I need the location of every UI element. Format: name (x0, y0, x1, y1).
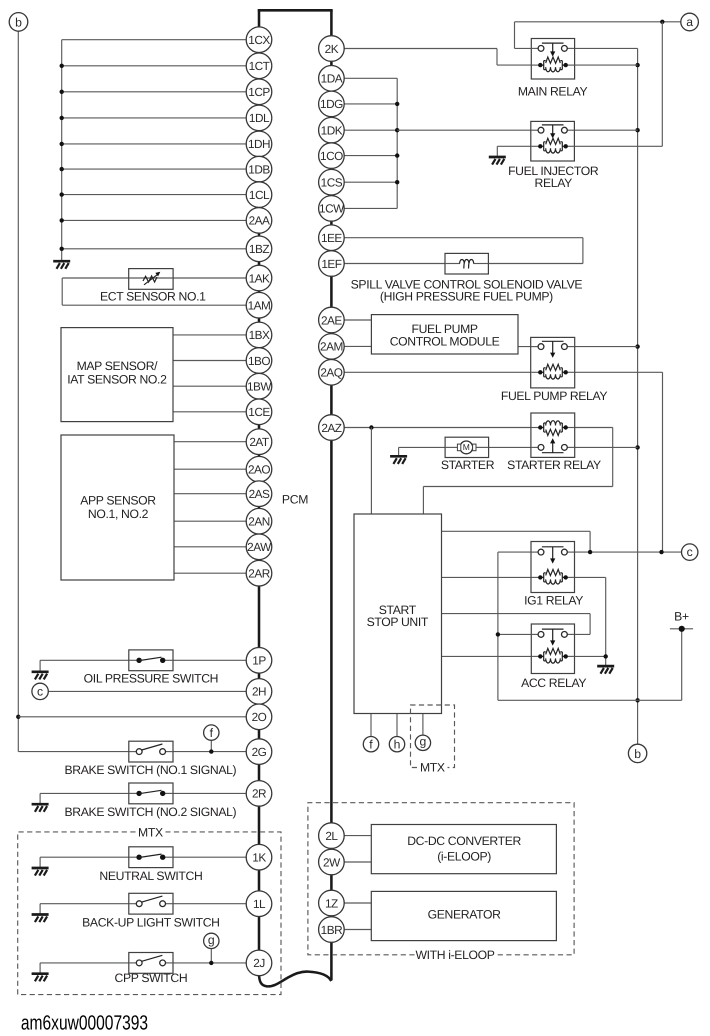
svg-text:2AN: 2AN (248, 515, 269, 529)
svg-text:(HIGH PRESSURE FUEL PUMP): (HIGH PRESSURE FUEL PUMP) (380, 290, 553, 304)
svg-text:1L: 1L (253, 897, 266, 911)
svg-text:2AA: 2AA (249, 214, 270, 228)
svg-text:1BW: 1BW (247, 380, 272, 394)
svg-text:1CE: 1CE (248, 405, 270, 419)
svg-text:2AM: 2AM (320, 340, 343, 354)
svg-text:1CT: 1CT (249, 59, 270, 73)
svg-text:1BR: 1BR (321, 923, 342, 937)
svg-text:CPP SWITCH: CPP SWITCH (115, 971, 188, 985)
svg-text:1P: 1P (252, 654, 266, 668)
svg-text:1CP: 1CP (248, 85, 270, 99)
svg-text:M: M (463, 442, 470, 452)
svg-text:STARTER RELAY: STARTER RELAY (507, 458, 601, 472)
svg-text:STARTER: STARTER (441, 458, 495, 472)
svg-text:h: h (394, 738, 401, 752)
svg-text:DC-DC CONVERTER: DC-DC CONVERTER (407, 834, 521, 848)
svg-text:1AK: 1AK (249, 271, 270, 285)
svg-text:B+: B+ (674, 609, 689, 623)
svg-text:1BZ: 1BZ (249, 242, 269, 256)
svg-text:1BX: 1BX (249, 328, 270, 342)
svg-text:MTX: MTX (138, 825, 163, 839)
svg-text:c: c (687, 545, 693, 559)
svg-text:STOP UNIT: STOP UNIT (367, 615, 429, 629)
svg-text:1DH: 1DH (248, 137, 270, 151)
svg-text:BRAKE SWITCH (NO.1 SIGNAL): BRAKE SWITCH (NO.1 SIGNAL) (65, 763, 237, 777)
svg-text:b: b (15, 16, 22, 30)
svg-text:2H: 2H (252, 685, 266, 699)
svg-text:1EF: 1EF (321, 257, 341, 271)
svg-text:2AE: 2AE (321, 313, 342, 327)
svg-text:1CL: 1CL (249, 188, 270, 202)
svg-text:GENERATOR: GENERATOR (428, 908, 501, 922)
svg-text:APP SENSOR: APP SENSOR (80, 493, 156, 507)
svg-text:am6xuw00007393: am6xuw00007393 (21, 1012, 148, 1035)
svg-text:1CS: 1CS (321, 176, 343, 190)
svg-text:2R: 2R (252, 787, 266, 801)
svg-text:2AR: 2AR (248, 567, 269, 581)
svg-text:ECT SENSOR NO.1: ECT SENSOR NO.1 (100, 290, 206, 304)
svg-text:2J: 2J (253, 956, 265, 970)
svg-text:2K: 2K (325, 42, 339, 56)
svg-text:BACK-UP LIGHT SWITCH: BACK-UP LIGHT SWITCH (82, 915, 219, 929)
svg-text:1CW: 1CW (319, 202, 345, 216)
svg-text:1DG: 1DG (320, 97, 343, 111)
svg-text:2O: 2O (252, 710, 267, 724)
svg-text:1AM: 1AM (248, 299, 271, 313)
svg-text:MAP SENSOR/: MAP SENSOR/ (77, 359, 159, 373)
svg-text:IG1 RELAY: IG1 RELAY (524, 593, 583, 607)
svg-text:2L: 2L (325, 829, 338, 843)
svg-text:(i-ELOOP): (i-ELOOP) (437, 849, 491, 863)
svg-text:1DK: 1DK (321, 124, 343, 138)
svg-text:b: b (634, 747, 641, 761)
svg-text:PCM: PCM (282, 492, 308, 506)
svg-text:c: c (37, 684, 43, 698)
svg-text:MTX: MTX (420, 760, 445, 774)
svg-text:ACC RELAY: ACC RELAY (521, 676, 586, 690)
svg-text:2G: 2G (252, 745, 267, 759)
svg-text:a: a (686, 15, 693, 29)
svg-text:2AZ: 2AZ (321, 421, 341, 435)
svg-text:1K: 1K (252, 851, 266, 865)
svg-text:FUEL PUMP RELAY: FUEL PUMP RELAY (501, 389, 607, 403)
svg-text:OIL PRESSURE SWITCH: OIL PRESSURE SWITCH (84, 671, 218, 685)
svg-text:MAIN RELAY: MAIN RELAY (518, 84, 588, 98)
svg-text:BRAKE SWITCH (NO.2 SIGNAL): BRAKE SWITCH (NO.2 SIGNAL) (65, 805, 237, 819)
svg-text:1CO: 1CO (320, 149, 343, 163)
svg-text:1DL: 1DL (249, 111, 270, 125)
svg-text:NEUTRAL SWITCH: NEUTRAL SWITCH (99, 869, 202, 883)
svg-text:1Z: 1Z (325, 896, 338, 910)
svg-text:2AS: 2AS (249, 487, 270, 501)
svg-text:1BO: 1BO (248, 354, 270, 368)
svg-text:RELAY: RELAY (535, 176, 573, 190)
svg-text:CONTROL MODULE: CONTROL MODULE (390, 334, 500, 348)
svg-text:IAT SENSOR NO.2: IAT SENSOR NO.2 (67, 372, 167, 386)
svg-text:2AW: 2AW (247, 540, 272, 554)
svg-text:2AO: 2AO (248, 463, 270, 477)
svg-text:2AT: 2AT (249, 435, 269, 449)
svg-text:g: g (420, 735, 427, 749)
svg-text:1EE: 1EE (321, 231, 342, 245)
svg-text:NO.1, NO.2: NO.1, NO.2 (88, 507, 149, 521)
svg-text:1CX: 1CX (248, 33, 270, 47)
svg-text:1DB: 1DB (248, 162, 270, 176)
svg-text:2W: 2W (323, 855, 341, 869)
svg-text:1DA: 1DA (321, 72, 343, 86)
svg-text:WITH i-ELOOP: WITH i-ELOOP (415, 948, 494, 962)
svg-text:g: g (208, 933, 215, 947)
svg-text:2AQ: 2AQ (320, 366, 342, 380)
